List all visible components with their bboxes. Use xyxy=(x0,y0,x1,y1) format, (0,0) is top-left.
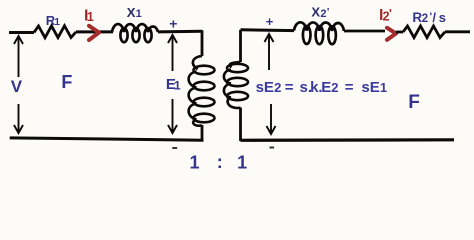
svg-text::: : xyxy=(217,152,223,172)
svg-text:F: F xyxy=(408,92,420,113)
minus sign sE2 xyxy=(270,147,275,149)
svg-text:E: E xyxy=(321,79,331,96)
resistor R1 xyxy=(34,26,76,38)
wire corner down to primary coil xyxy=(201,30,204,56)
transformer secondary coil xyxy=(224,62,248,108)
wire X2' to I2' xyxy=(344,30,385,33)
arrow E1 up xyxy=(168,35,177,71)
svg-text:2: 2 xyxy=(274,80,281,95)
transformer primary coil xyxy=(189,56,215,126)
transformer secondary top lead xyxy=(239,30,242,62)
svg-text:1: 1 xyxy=(87,10,94,24)
current arrow I1 xyxy=(89,26,99,40)
wire bottom-right xyxy=(241,138,455,142)
svg-text:2: 2 xyxy=(331,80,338,95)
svg-text:X: X xyxy=(127,5,136,20)
current arrow I2' xyxy=(387,28,396,40)
svg-text:=: = xyxy=(345,79,354,96)
arrow sE2 down xyxy=(267,104,276,134)
svg-text:+: + xyxy=(169,15,177,31)
svg-text:1: 1 xyxy=(237,153,247,173)
svg-text:X: X xyxy=(311,5,320,20)
wire secondary coil to bottom xyxy=(239,108,242,142)
arrow sE2 up xyxy=(265,34,274,70)
inductor X1 xyxy=(112,24,158,42)
wire I2' to R2' xyxy=(396,31,403,34)
svg-text:1: 1 xyxy=(54,17,60,28)
arrow V up xyxy=(14,36,23,77)
arrow E1 down xyxy=(168,99,177,133)
svg-text:1: 1 xyxy=(380,80,387,95)
svg-text:/: / xyxy=(432,10,436,25)
svg-text:1: 1 xyxy=(190,153,200,173)
svg-text:': ' xyxy=(327,6,330,18)
arrow V down xyxy=(14,104,23,133)
wire top-left lead xyxy=(9,31,34,34)
svg-text:1: 1 xyxy=(136,8,142,20)
svg-text:+: + xyxy=(266,14,274,29)
wire bottom-left xyxy=(10,138,204,140)
svg-text:': ' xyxy=(389,7,392,21)
svg-text:F: F xyxy=(61,72,72,92)
svg-text:2: 2 xyxy=(422,13,428,25)
wire right end xyxy=(445,30,470,33)
wire X1 to corner xyxy=(158,30,202,34)
wire primary coil to bottom xyxy=(201,125,204,141)
svg-text:2: 2 xyxy=(320,8,326,20)
inductor X2' xyxy=(294,22,344,44)
svg-text:1: 1 xyxy=(174,78,181,92)
svg-text:V: V xyxy=(11,77,23,96)
wire secondary top xyxy=(241,28,295,32)
minus sign E1 xyxy=(172,147,177,149)
svg-text:sE: sE xyxy=(256,79,274,96)
svg-text:s: s xyxy=(439,10,446,25)
resistor R2'/s xyxy=(403,26,445,38)
wire R1 to X1 xyxy=(76,30,113,33)
svg-text:sE: sE xyxy=(361,79,379,96)
svg-text:=: = xyxy=(285,79,294,96)
